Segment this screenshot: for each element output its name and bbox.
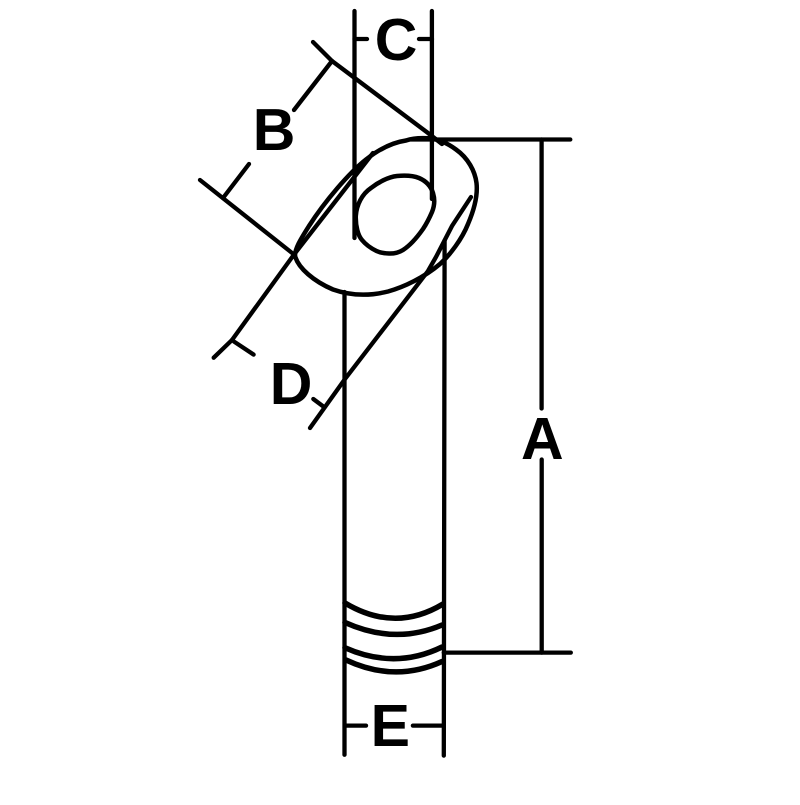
extension line L1 diagonal bbox=[200, 180, 294, 255]
ring 3 bbox=[345, 647, 442, 659]
svg-text:C: C bbox=[375, 7, 418, 73]
dimension E line right bbox=[413, 723, 443, 727]
dimension D overshoot bbox=[214, 340, 232, 358]
dimension A line upper bbox=[539, 140, 543, 409]
tube right edge bbox=[442, 241, 447, 756]
ring 4 bbox=[346, 660, 442, 672]
ring 1 bbox=[345, 603, 443, 618]
dimension D line bbox=[232, 153, 373, 340]
svg-text:E: E bbox=[371, 693, 410, 759]
ring 2 bbox=[345, 623, 442, 635]
svg-text:A: A bbox=[521, 406, 564, 472]
extension line A bottom bbox=[444, 650, 571, 654]
tube left edge bbox=[342, 292, 346, 755]
extension line C left bbox=[352, 11, 356, 238]
dimension C tick left bbox=[355, 37, 368, 41]
extension line flange top diagonal bbox=[313, 42, 442, 144]
dimension B line lower bbox=[223, 164, 249, 198]
extension stub on side edge bbox=[313, 399, 324, 407]
flange right side edge bbox=[310, 197, 471, 428]
extension line C right bbox=[430, 11, 434, 199]
flange hole ellipse bbox=[356, 176, 434, 254]
dimension E line left bbox=[345, 723, 366, 727]
dimension A line lower bbox=[540, 460, 544, 653]
svg-text:D: D bbox=[270, 351, 313, 417]
extension stub L2 bbox=[234, 342, 254, 355]
extension line A top bbox=[411, 137, 570, 141]
flange outer outline bbox=[295, 138, 477, 295]
svg-text:B: B bbox=[253, 97, 296, 163]
dimension B line upper bbox=[294, 61, 332, 110]
dimension C tick right bbox=[419, 37, 432, 41]
